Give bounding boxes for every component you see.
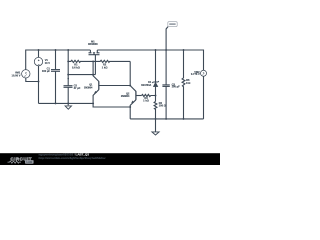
label D1 — [141, 81, 152, 87]
mosfet M1 — [89, 50, 100, 75]
label C2 — [74, 83, 81, 90]
voltmeter VM2 — [201, 70, 207, 119]
junction R5 bottom rail — [183, 118, 185, 120]
junction R5 top rail — [183, 49, 185, 51]
svg-text:1 kΩ: 1 kΩ — [102, 65, 108, 69]
node stub on C2 branch — [67, 78, 69, 80]
svg-text:5.6 kΩ: 5.6 kΩ — [72, 65, 80, 69]
svg-text:0.776 V: 0.776 V — [191, 72, 200, 76]
zener diode D1 — [152, 50, 159, 101]
junction ground left rail — [67, 102, 69, 104]
junction Q1 base / Q2 collector — [129, 85, 131, 87]
footer text — [39, 153, 106, 160]
transistor Q1 — [93, 61, 130, 103]
svg-text:10 V: 10 V — [45, 61, 51, 65]
label C3 — [172, 83, 181, 89]
svg-text:100 µF: 100 µF — [172, 85, 181, 89]
label Q1 — [84, 84, 93, 90]
junction gate wire left — [67, 74, 69, 76]
label R1 — [72, 63, 80, 70]
footer bar — [0, 153, 220, 165]
resistor R4 vertical — [154, 101, 157, 119]
svg-text:1 kΩ: 1 kΩ — [143, 99, 149, 103]
junction C1 bottom rail — [55, 102, 57, 104]
svg-text:100 Ω: 100 Ω — [159, 103, 166, 107]
source V1 — [34, 50, 42, 103]
junction R1 left — [67, 60, 69, 62]
label M1 — [88, 40, 98, 45]
junction V1 top rail — [38, 49, 40, 51]
junction Q1 emitter rail — [92, 102, 94, 104]
svg-text:1N4734A: 1N4734A — [141, 84, 151, 87]
svg-text:8 Ω: 8 Ω — [186, 81, 190, 85]
label R4 — [159, 101, 166, 107]
junction D1 top rail — [155, 49, 157, 51]
wire step middle — [93, 103, 130, 107]
svg-text:http://circuitlab.com/c6g64xv8: http://circuitlab.com/c6g64xv8pr25zq4w8h… — [39, 156, 106, 160]
junction R1/R2 gate node — [92, 60, 94, 62]
svg-text:100 µF: 100 µF — [42, 69, 51, 73]
label R5 — [186, 78, 190, 85]
svg-text:IRF9530: IRF9530 — [88, 43, 98, 46]
junction C3/flag top rail — [165, 49, 167, 51]
label V1 — [45, 58, 51, 65]
junction gate wire right — [92, 74, 94, 76]
voltmeter VM1 — [22, 70, 39, 82]
transistor Q2 — [130, 86, 141, 119]
wire top rail right segment — [97, 50, 203, 70]
label R3 — [143, 96, 149, 102]
label Q2 — [121, 93, 130, 99]
svg-text:10.00 V: 10.00 V — [12, 73, 21, 77]
junction C3 bottom rail — [165, 118, 167, 120]
junction ground right rail — [155, 118, 157, 120]
flag OUT — [166, 22, 177, 50]
junction step Q2 emitter — [129, 106, 131, 108]
wire bottom right rail — [130, 118, 203, 120]
svg-text:2N3904: 2N3904 — [121, 95, 130, 98]
wire top rail left segment — [26, 50, 91, 70]
svg-text:2N3904: 2N3904 — [84, 86, 93, 89]
junction VM1 to V1 — [38, 81, 40, 83]
label VM1 — [12, 70, 21, 77]
label C1 — [42, 66, 51, 73]
label VM2 — [191, 70, 200, 76]
resistor R2 — [93, 60, 130, 62]
junction C1 top rail — [55, 49, 57, 51]
label R2 — [102, 63, 108, 70]
junction R3 zener node — [155, 95, 157, 97]
capacitor C1 — [51, 50, 60, 103]
resistor R3 — [142, 94, 156, 96]
junction R1 branch top rail — [67, 49, 69, 51]
wire R2 down to Q2 collector — [129, 61, 131, 85]
ground right — [152, 119, 159, 135]
resistor R1 — [68, 60, 93, 62]
CircuitLab logo — [8, 156, 34, 164]
capacitor C3 — [162, 50, 169, 119]
wire gate node y74.6 — [68, 74, 95, 76]
wire branch x=68.2 with capacitor C2 — [64, 50, 73, 103]
resistor R5 vertical — [182, 50, 185, 119]
ground left — [65, 103, 71, 109]
wire bottom left rail — [39, 102, 94, 104]
svg-text:LAB: LAB — [27, 160, 33, 164]
svg-text:47 µF: 47 µF — [74, 86, 81, 90]
